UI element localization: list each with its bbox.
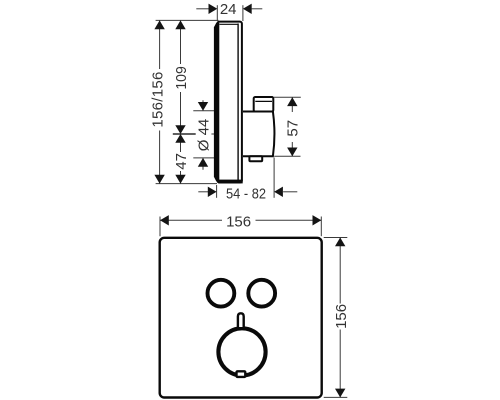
extension lines for 24 [216,5,218,21]
extension lines for 57 [274,96,301,98]
svg-text:Ø 44: Ø 44 [196,119,213,152]
dimension 156 right [333,238,350,398]
plate inner top line [220,23,238,25]
svg-text:156: 156 [333,304,350,329]
handle pin [238,313,244,327]
svg-text:109: 109 [173,66,190,90]
knob cap inner line [255,100,272,102]
dimension 54 - 82 [198,185,297,202]
extension line bottom-left (plate bottom) [156,183,217,185]
centerline dash at plate [211,133,214,135]
plate inner right line [237,24,239,182]
front plate square [160,238,322,398]
extension lines for right 156 [324,237,348,239]
dimension 57 line [284,97,301,156]
extension line top-left (plate top) [156,19,219,21]
dimension 24 [196,1,262,18]
dimension dia44 line [196,100,213,170]
svg-text:156: 156 [226,214,251,231]
svg-text:24: 24 [220,1,237,18]
plate bottom thick band [218,180,242,184]
big circle (thermostat handle) [218,328,265,375]
extension lines for 54-82 [216,185,218,198]
side-view plate body [217,22,242,183]
svg-text:156/156: 156/156 [150,71,167,127]
dimension 109 line [173,20,190,134]
knob cap (side view) [254,97,274,112]
dimension 47 line [173,134,190,184]
center tick at knob axis [173,133,196,135]
dimension 156/156 line [150,20,167,183]
knob body (side view) [243,112,274,157]
svg-text:47: 47 [173,153,190,170]
dimension 156 top [160,213,321,231]
svg-text:57: 57 [284,120,301,137]
handle bottom tab [237,371,246,377]
svg-text:54 - 82: 54 - 82 [226,185,266,202]
extension lines for dia 44 [193,110,215,112]
knob bottom tab (side view) [249,156,262,161]
plate front face thick bar [214,23,219,182]
small circle left [208,280,235,307]
small circle right [248,280,275,307]
extension lines for top 156 [159,217,161,237]
